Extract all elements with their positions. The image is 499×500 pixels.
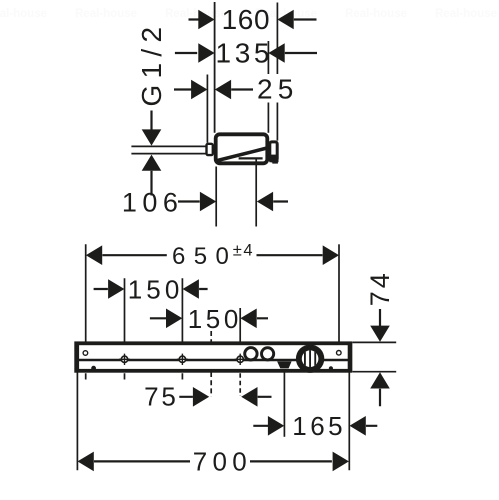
svg-text:Real-house: Real-house	[165, 8, 227, 20]
svg-text:150: 150	[188, 304, 242, 334]
svg-text:700: 700	[193, 447, 252, 477]
svg-text:135: 135	[216, 37, 274, 68]
svg-text:Real-house: Real-house	[345, 8, 407, 20]
svg-text:G1/2: G1/2	[136, 21, 167, 107]
svg-text:160: 160	[222, 4, 271, 35]
svg-text:2: 2	[257, 74, 273, 105]
svg-text:150: 150	[128, 274, 184, 304]
svg-text:106: 106	[122, 187, 184, 217]
svg-text:165: 165	[292, 411, 346, 441]
svg-text:±4: ±4	[233, 242, 254, 260]
svg-text:Real-house: Real-house	[435, 8, 497, 20]
svg-text:74: 74	[365, 270, 395, 306]
svg-text:Real-house: Real-house	[75, 8, 137, 20]
svg-text:650: 650	[172, 243, 237, 270]
svg-text:75: 75	[144, 382, 179, 412]
svg-text:Real-house: Real-house	[0, 8, 47, 20]
svg-text:5: 5	[278, 74, 294, 105]
